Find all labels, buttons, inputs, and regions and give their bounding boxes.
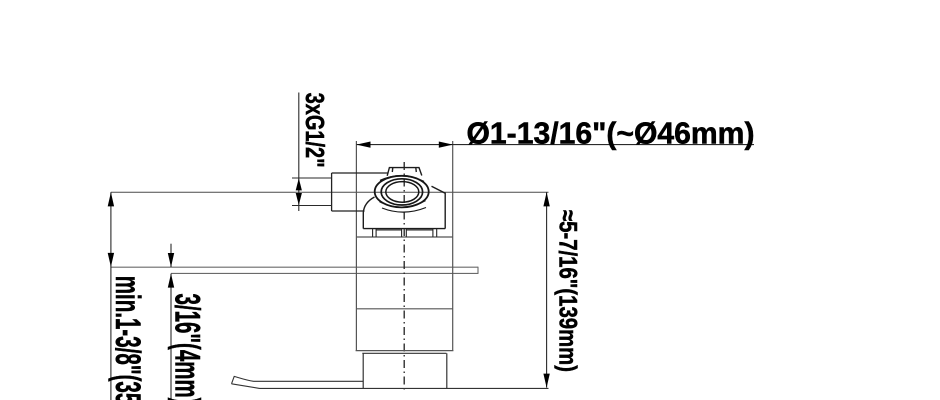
horizontal centerline through valve axis (111, 191, 549, 193)
svg-text:≈5-7/16"(139mm): ≈5-7/16"(139mm) (553, 210, 581, 372)
rough-in housing box with extension lines (356, 141, 454, 351)
arrowhead left (diameter dimension) (356, 142, 370, 148)
arrowhead up (height dimension) (543, 192, 549, 206)
arrowhead down to plate top (168, 253, 174, 267)
mounting feet under body (373, 229, 437, 237)
svg-text:Ø1-13/16"(~Ø46mm): Ø1-13/16"(~Ø46mm) (467, 116, 755, 151)
valve body outline (363, 186, 445, 228)
G1/2 inlet port (side connection) (332, 173, 389, 211)
dimension line: plate thickness 3/16 (170, 244, 172, 400)
arrowhead right (diameter dimension) (439, 142, 453, 148)
trim ring (concentric ellipses) (375, 176, 429, 212)
dimension line: minimum depth (left) (110, 192, 112, 400)
dimension lines: 3xG1/2 thread connection (292, 93, 332, 212)
tub spout outline (232, 376, 364, 388)
arrowhead up (thread dimension) (296, 178, 302, 190)
arrowhead up (min depth dimension) (108, 192, 114, 206)
dimension line: diameter (top) (356, 144, 754, 146)
vertical centerline (dash-dot) (403, 162, 405, 390)
wall plate (finished wall / mounting plate, edge view) (111, 267, 478, 274)
svg-text:3/16"(4mm): 3/16"(4mm) (168, 294, 207, 400)
arrowhead up to plate bottom (168, 274, 174, 288)
svg-text:3xG1/2": 3xG1/2" (300, 93, 330, 168)
cartridge cap on top of body (387, 168, 422, 176)
arrowhead down (height dimension) (543, 374, 549, 388)
lower narrow pipe box (362, 353, 447, 388)
floor / base extension line (260, 387, 549, 389)
dimension line: height right (139mm) (546, 192, 548, 387)
arrowhead down (thread dimension) (296, 193, 302, 205)
arrowhead down (min depth dimension) (108, 253, 114, 267)
svg-text:min.1-3/8"(35mm): min.1-3/8"(35mm) (108, 276, 147, 400)
